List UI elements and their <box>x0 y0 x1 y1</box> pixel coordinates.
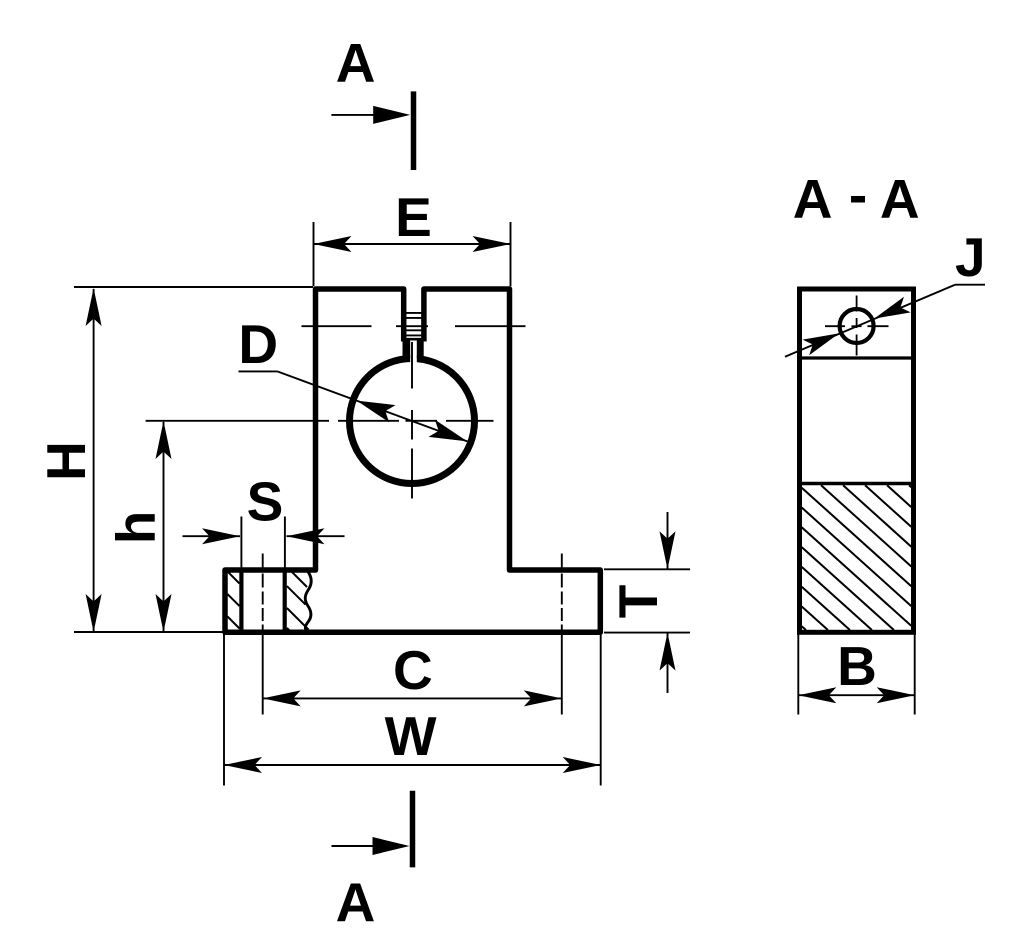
section body outline <box>800 289 914 632</box>
svg-text:T: T <box>607 585 669 619</box>
hole J centerlines <box>825 325 845 327</box>
dimension T line top <box>667 512 669 569</box>
svg-text:H: H <box>35 441 97 481</box>
hatch left strip <box>228 572 240 584</box>
narrow slit right wall <box>417 339 424 358</box>
svg-text:A: A <box>880 168 920 230</box>
svg-text:h: h <box>105 511 167 545</box>
dimension E extension lines <box>313 222 315 286</box>
svg-text:D: D <box>238 313 278 375</box>
dimension S line left <box>183 535 241 537</box>
dimension T extension lines <box>604 568 690 570</box>
thread tick 4 <box>403 334 425 336</box>
dimension D arrows <box>357 401 396 423</box>
svg-text:W: W <box>385 705 437 767</box>
section divider 1 <box>802 356 912 359</box>
svg-text:B: B <box>837 635 877 697</box>
counterbore hole right wall <box>283 572 287 631</box>
thread tick 3 <box>403 329 425 331</box>
dimension B arrows <box>798 687 836 703</box>
dimension T arrows <box>660 531 676 569</box>
dimension S line right <box>287 535 345 537</box>
svg-text:A: A <box>336 871 376 933</box>
dimension h line <box>163 422 165 631</box>
dimension B extension lines <box>797 635 799 715</box>
section divider 2 <box>802 482 912 485</box>
section arrow A top <box>331 114 400 116</box>
dimension J leader <box>785 285 955 357</box>
bore vertical centerline <box>411 342 413 389</box>
svg-text:J: J <box>955 226 986 288</box>
dimension S arrows <box>202 528 240 544</box>
bore horizontal centerline <box>146 420 329 422</box>
section arrow A bottom <box>332 845 401 847</box>
svg-text:A: A <box>336 31 376 93</box>
dimension W line <box>224 764 601 766</box>
dimension h arrows <box>156 421 172 459</box>
dimension W arrows <box>224 757 262 773</box>
svg-text:E: E <box>395 186 432 248</box>
hatch right strip <box>292 572 307 587</box>
bore circle D <box>350 359 475 484</box>
section hatch <box>909 485 911 487</box>
dimension J arrows <box>874 297 911 319</box>
thread tick 2 <box>403 317 425 319</box>
section line A bottom <box>410 791 416 868</box>
svg-text:C: C <box>393 639 433 701</box>
dimension C extension lines <box>262 633 264 715</box>
dimension C line <box>263 697 562 699</box>
svg-text:A: A <box>793 168 833 230</box>
slit gap over bore <box>410 341 417 368</box>
dimension T line bottom <box>667 633 669 693</box>
counterbore hole left wall <box>239 572 243 631</box>
dimension S extension lines <box>240 517 242 569</box>
dimension H top extension <box>74 286 313 288</box>
svg-text:S: S <box>247 471 284 533</box>
dimension H bottom extension <box>74 631 223 633</box>
thread tick 1 <box>403 312 425 314</box>
dimension H arrows <box>86 288 102 326</box>
shaft support block outline (front view) <box>225 289 600 632</box>
dimension H line <box>93 289 95 631</box>
svg-text:-: - <box>849 164 867 226</box>
left hole centerline x=262.7 <box>262 554 264 569</box>
break wavy line <box>305 572 311 632</box>
dimension B line <box>798 694 914 696</box>
dimension W extension lines <box>223 634 225 786</box>
dimension E line <box>314 243 511 245</box>
clamp screw centerline <box>302 325 372 327</box>
right hole centerline x=561.8 <box>561 554 563 569</box>
dimension C arrows <box>263 690 301 706</box>
dimension D leader <box>239 370 278 372</box>
hole J circle <box>840 309 874 343</box>
dimension E arrows <box>314 236 352 252</box>
narrow slit left wall <box>403 339 411 358</box>
section line A top <box>411 91 417 170</box>
slot shoulder <box>403 338 425 341</box>
